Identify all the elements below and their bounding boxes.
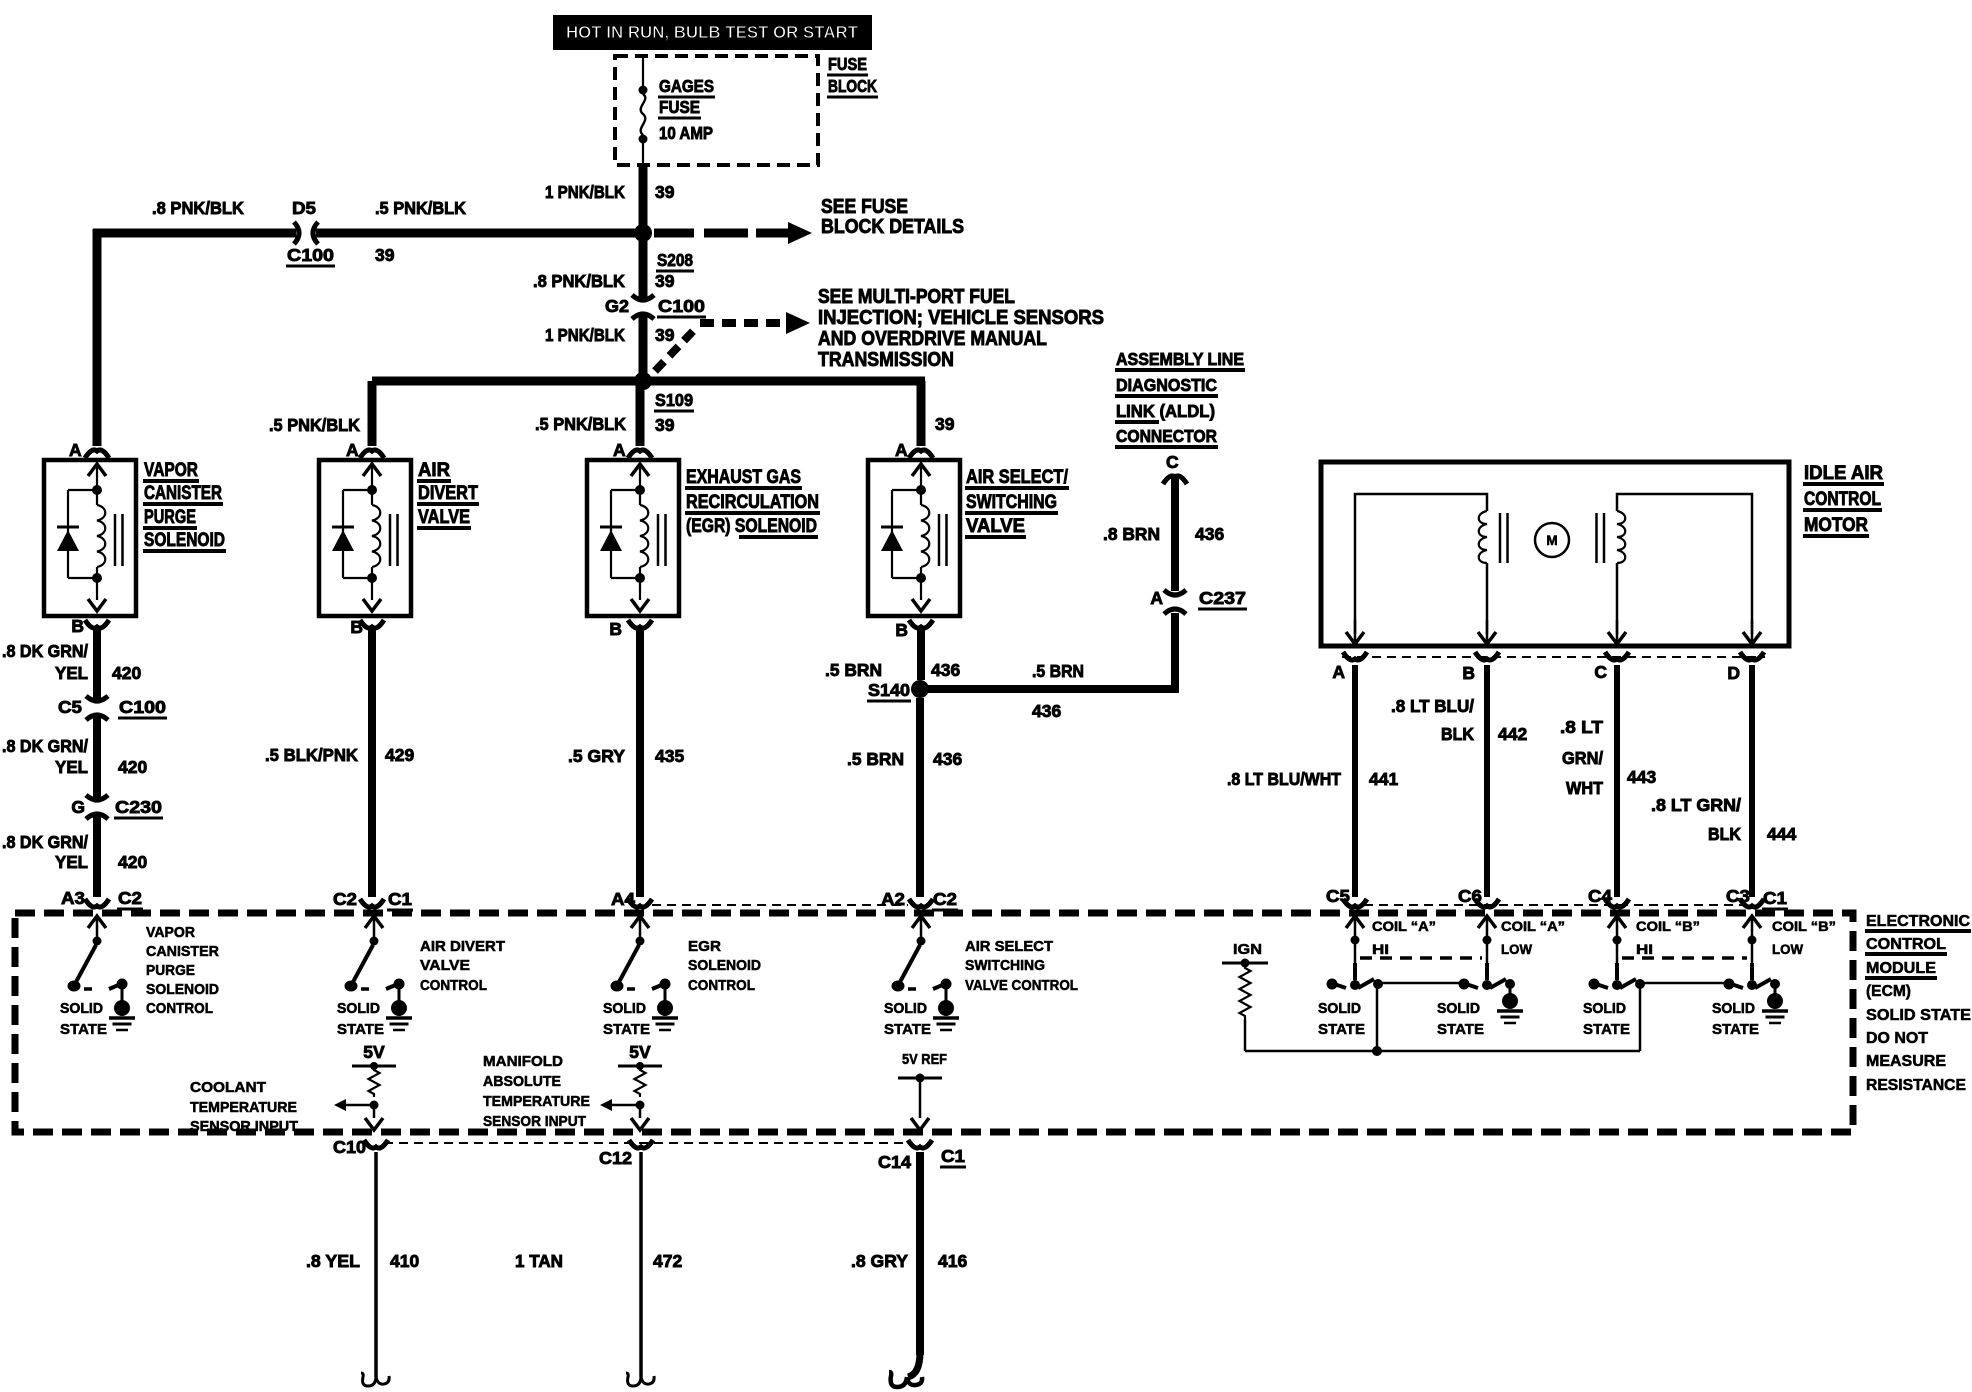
- svg-text:G2: G2: [605, 296, 629, 316]
- svg-text:BLOCK DETAILS: BLOCK DETAILS: [821, 216, 964, 238]
- svg-text:.8 PNK/BLK: .8 PNK/BLK: [533, 271, 625, 291]
- wire S109 horizontal rail: [372, 377, 925, 386]
- svg-text:B: B: [609, 619, 622, 639]
- svg-text:C100: C100: [119, 697, 166, 717]
- connector female at air divert pin A: [360, 450, 384, 458]
- svg-text:WHT: WHT: [1566, 778, 1603, 798]
- svg-text:AND OVERDRIVE MANUAL: AND OVERDRIVE MANUAL: [818, 328, 1047, 350]
- svg-text:DO NOT: DO NOT: [1866, 1030, 1929, 1047]
- svg-text:410: 410: [390, 1251, 419, 1271]
- svg-text:LINK (ALDL): LINK (ALDL): [1116, 401, 1215, 421]
- svg-text:YEL: YEL: [55, 757, 88, 777]
- solenoid air divert valve: [319, 460, 411, 616]
- connector female air select at ECM: [909, 899, 933, 907]
- junction IGN rail to coil A HI: [1372, 1046, 1382, 1056]
- svg-text:GAGES: GAGES: [659, 76, 714, 96]
- svg-text:39: 39: [655, 271, 675, 291]
- svg-text:CONTROL: CONTROL: [688, 977, 755, 994]
- svg-text:M: M: [1546, 533, 1557, 548]
- svg-text:STATE: STATE: [60, 1021, 107, 1038]
- svg-text:1 PNK/BLK: 1 PNK/BLK: [545, 182, 625, 202]
- svg-text:RESISTANCE: RESISTANCE: [1866, 1077, 1966, 1094]
- IAC terminal pins A B C D: [1354, 620, 1357, 641]
- connector female at ALDL pin C: [1163, 476, 1187, 484]
- svg-text:1 PNK/BLK: 1 PNK/BLK: [545, 325, 625, 345]
- dashed link coil A HI to LOW: [1360, 956, 1482, 960]
- wire IAC C to ECM C4 circuit 443: [1614, 665, 1620, 897]
- connector female at EGR pin A: [628, 450, 652, 458]
- wire vapor B to C100 circuit 420: [93, 629, 101, 699]
- svg-text:EXHAUST GAS: EXHAUST GAS: [686, 466, 801, 488]
- svg-text:DIVERT: DIVERT: [418, 482, 478, 504]
- svg-text:CONNECTOR: CONNECTOR: [1116, 426, 1217, 446]
- wire C230 to ECM A3 circuit 420: [93, 816, 101, 897]
- wire coil B HI contact to coil B LOW contact: [1640, 982, 1729, 985]
- svg-text:SOLENOID: SOLENOID: [146, 981, 219, 998]
- svg-text:BLOCK: BLOCK: [828, 76, 877, 96]
- IAC motor M: [1535, 523, 1569, 557]
- svg-text:SOLID STATE: SOLID STATE: [1866, 1007, 1971, 1024]
- svg-text:A: A: [895, 440, 908, 460]
- connector female at vapor canister pin A: [85, 450, 109, 458]
- svg-text:C1: C1: [1763, 888, 1787, 908]
- wire IAC A to ECM C5 circuit 441: [1352, 665, 1358, 897]
- svg-text:FUSE: FUSE: [659, 97, 700, 117]
- wire C100 to C230 circuit 420: [93, 717, 101, 798]
- svg-text:G: G: [71, 797, 85, 817]
- svg-text:.8 BRN: .8 BRN: [1103, 524, 1160, 544]
- wire C12 MAT sensor circuit 472: [639, 1152, 643, 1377]
- electronic control module ECM dashed boundary: [15, 913, 1853, 1132]
- svg-text:C2: C2: [333, 889, 357, 909]
- svg-text:C100: C100: [658, 296, 705, 316]
- svg-text:LOW: LOW: [1772, 942, 1803, 957]
- svg-text:5V REF: 5V REF: [902, 1051, 947, 1068]
- svg-text:VALVE: VALVE: [420, 957, 470, 974]
- svg-text:SENSOR INPUT: SENSOR INPUT: [483, 1113, 586, 1130]
- dashed link coil B HI to LOW: [1622, 956, 1747, 960]
- wire S208 horizontal branch left: [93, 229, 296, 238]
- svg-text:ABSOLUTE: ABSOLUTE: [483, 1073, 561, 1090]
- svg-text:CONTROL: CONTROL: [146, 1000, 213, 1017]
- svg-text:.5 BRN: .5 BRN: [847, 749, 904, 769]
- svg-text:TEMPERATURE: TEMPERATURE: [483, 1093, 590, 1110]
- svg-text:SEE FUSE: SEE FUSE: [821, 196, 908, 218]
- dashed connector interface A4 to A2: [652, 904, 908, 906]
- svg-text:SWITCHING: SWITCHING: [965, 957, 1045, 974]
- svg-text:B: B: [895, 620, 908, 640]
- svg-text:PURGE: PURGE: [146, 962, 195, 979]
- svg-text:CONTROL: CONTROL: [1804, 488, 1881, 510]
- svg-text:VAPOR: VAPOR: [144, 459, 198, 481]
- svg-text:COIL “B”: COIL “B”: [1772, 919, 1836, 934]
- svg-text:STATE: STATE: [1318, 1021, 1365, 1038]
- svg-text:BLK: BLK: [1441, 724, 1474, 744]
- dashed connector interface line IAC: [1342, 656, 1765, 658]
- connector females IAC wires at ECM: [1343, 899, 1367, 907]
- svg-text:B: B: [71, 616, 84, 636]
- wire S208 to C100 circuit 39: [639, 233, 648, 299]
- dashed connector interface line C10 to C14: [384, 1142, 910, 1144]
- svg-text:SOLID: SOLID: [1318, 1000, 1361, 1017]
- svg-text:BLK: BLK: [1708, 824, 1741, 844]
- wire ALDL to C237 circuit 436: [1171, 477, 1179, 591]
- svg-text:D5: D5: [292, 198, 316, 218]
- IAC coil B wiring loop terminal D: [1617, 494, 1752, 634]
- svg-text:436: 436: [931, 660, 960, 680]
- fuse GAGES FUSE 10 AMP: [642, 58, 644, 86]
- wire IGN to coil driver commons: [1245, 1050, 1640, 1053]
- solenoid vapor canister purge solenoid: [44, 460, 136, 616]
- svg-text:.8 LT GRN/: .8 LT GRN/: [1651, 795, 1741, 815]
- svg-text:AIR SELECT: AIR SELECT: [965, 938, 1053, 955]
- ECM driver air divert valve control: [365, 916, 383, 928]
- svg-text:.8 DK GRN/: .8 DK GRN/: [2, 736, 88, 756]
- svg-text:LOW: LOW: [1501, 942, 1532, 957]
- wire air divert B to ECM circuit 429: [368, 629, 376, 897]
- svg-text:PURGE: PURGE: [144, 506, 196, 528]
- svg-text:B: B: [1462, 663, 1475, 683]
- wire C10 coolant temp sensor circuit 410: [374, 1152, 378, 1377]
- svg-text:.5 PNK/BLK: .5 PNK/BLK: [269, 415, 360, 435]
- svg-text:EGR: EGR: [688, 938, 721, 955]
- svg-text:472: 472: [653, 1251, 682, 1271]
- svg-text:.5 PNK/BLK: .5 PNK/BLK: [375, 198, 466, 218]
- svg-text:39: 39: [375, 245, 395, 265]
- svg-text:SOLENOID: SOLENOID: [688, 957, 761, 974]
- svg-text:.5 PNK/BLK: .5 PNK/BLK: [535, 414, 626, 434]
- wire C100 to S109 circuit 39: [639, 315, 648, 381]
- svg-text:VALVE: VALVE: [966, 515, 1025, 537]
- wire C14 5V reference circuit 416: [916, 1152, 924, 1355]
- svg-text:429: 429: [385, 745, 414, 765]
- wire coil A HI contact to coil A LOW contact: [1378, 982, 1464, 985]
- svg-text:C: C: [1166, 452, 1179, 472]
- svg-text:.5 BRN: .5 BRN: [1032, 661, 1084, 681]
- svg-text:SWITCHING: SWITCHING: [966, 491, 1057, 513]
- svg-text:.8 PNK/BLK: .8 PNK/BLK: [152, 198, 244, 218]
- IAC coil A core: [1499, 513, 1502, 563]
- arrow to SEE FUSE BLOCK DETAILS: [654, 229, 694, 238]
- svg-text:STATE: STATE: [337, 1021, 384, 1038]
- svg-text:SOLID: SOLID: [60, 1000, 103, 1017]
- svg-text:.5 BRN: .5 BRN: [825, 660, 882, 680]
- svg-text:RECIRCULATION: RECIRCULATION: [686, 491, 819, 513]
- svg-text:STATE: STATE: [884, 1021, 931, 1038]
- wire fuse block to S208 circuit 39: [639, 165, 648, 233]
- IAC coil B core: [1595, 513, 1598, 563]
- svg-text:COIL “A”: COIL “A”: [1501, 919, 1565, 934]
- svg-text:SENSOR INPUT: SENSOR INPUT: [190, 1118, 298, 1135]
- connector C237 pin A inline: [1164, 590, 1186, 595]
- svg-text:STATE: STATE: [1712, 1021, 1759, 1038]
- svg-text:VAPOR: VAPOR: [146, 924, 195, 941]
- svg-text:10 AMP: 10 AMP: [659, 123, 713, 143]
- svg-text:TEMPERATURE: TEMPERATURE: [190, 1099, 297, 1116]
- svg-text:FUSE: FUSE: [828, 54, 867, 74]
- svg-text:D: D: [1727, 663, 1740, 683]
- svg-text:444: 444: [1767, 824, 1796, 844]
- connector C230 pin G inline: [86, 795, 108, 800]
- wire S208 branch down to vapor canister solenoid: [93, 229, 102, 446]
- svg-text:39: 39: [655, 182, 675, 202]
- svg-text:MEASURE: MEASURE: [1866, 1053, 1946, 1070]
- splice S109: [634, 372, 652, 390]
- svg-text:C14: C14: [878, 1152, 911, 1172]
- svg-text:C2: C2: [933, 889, 957, 909]
- wire S140 to ECM circuit 436: [916, 698, 924, 897]
- svg-text:SOLENOID: SOLENOID: [144, 529, 225, 551]
- svg-text:INJECTION; VEHICLE SENSORS: INJECTION; VEHICLE SENSORS: [818, 307, 1104, 329]
- ground at coil B LOW contact: [1774, 988, 1777, 998]
- svg-text:A3: A3: [61, 888, 85, 908]
- svg-text:420: 420: [112, 663, 141, 683]
- ECM coil B LOW driver: [1743, 916, 1761, 928]
- svg-text:C1: C1: [388, 889, 412, 909]
- svg-text:GRN/: GRN/: [1562, 748, 1603, 768]
- svg-text:VALVE CONTROL: VALVE CONTROL: [965, 977, 1078, 994]
- connector C100 pin C5 inline: [86, 696, 108, 701]
- svg-text:COIL “A”: COIL “A”: [1372, 919, 1436, 934]
- wire air select B to S140 circuit 436: [917, 629, 925, 680]
- svg-text:CONTROL: CONTROL: [1866, 936, 1946, 953]
- svg-text:436: 436: [1032, 701, 1061, 721]
- svg-text:AIR SELECT/: AIR SELECT/: [966, 466, 1068, 488]
- IAC coil B winding: [1617, 511, 1625, 563]
- idle air control motor box: [1321, 462, 1789, 646]
- svg-text:S140: S140: [868, 680, 910, 700]
- svg-text:443: 443: [1627, 767, 1656, 787]
- svg-text:STATE: STATE: [1583, 1021, 1630, 1038]
- svg-text:IDLE AIR: IDLE AIR: [1804, 462, 1883, 484]
- svg-text:39: 39: [655, 415, 675, 435]
- svg-text:416: 416: [938, 1251, 967, 1271]
- svg-text:.8 YEL: .8 YEL: [306, 1251, 360, 1271]
- svg-text:DIAGNOSTIC: DIAGNOSTIC: [1116, 375, 1217, 395]
- svg-text:.8 LT: .8 LT: [1560, 717, 1603, 737]
- svg-text:.8 GRY: .8 GRY: [851, 1251, 908, 1271]
- svg-text:SOLID: SOLID: [1437, 1000, 1480, 1017]
- svg-text:SOLID: SOLID: [603, 1000, 646, 1017]
- svg-text:436: 436: [1195, 524, 1224, 544]
- svg-text:.8 LT BLU/: .8 LT BLU/: [1391, 696, 1474, 716]
- svg-text:C12: C12: [599, 1148, 632, 1168]
- svg-text:435: 435: [655, 746, 684, 766]
- svg-text:(EGR) SOLENOID: (EGR) SOLENOID: [686, 515, 817, 537]
- svg-text:.5 BLK/PNK: .5 BLK/PNK: [265, 745, 358, 765]
- svg-text:SOLID: SOLID: [337, 1000, 380, 1017]
- ECM coil A HI driver: [1346, 916, 1364, 928]
- wire IAC B to ECM C6 circuit 442: [1484, 665, 1490, 897]
- svg-text:A: A: [1150, 588, 1163, 608]
- svg-text:IGN: IGN: [1233, 941, 1262, 958]
- svg-text:YEL: YEL: [55, 663, 88, 683]
- svg-text:HOT IN RUN, BULB TEST OR START: HOT IN RUN, BULB TEST OR START: [566, 22, 858, 42]
- svg-text:39: 39: [935, 414, 955, 434]
- svg-text:STATE: STATE: [603, 1021, 650, 1038]
- ECM driver air select switching valve control: [912, 916, 930, 928]
- svg-text:1 TAN: 1 TAN: [515, 1251, 563, 1271]
- svg-text:S109: S109: [655, 390, 693, 410]
- svg-text:A: A: [346, 440, 359, 460]
- IAC coil A winding: [1479, 511, 1487, 563]
- svg-text:S208: S208: [657, 250, 693, 270]
- svg-text:SOLID: SOLID: [1583, 1000, 1626, 1017]
- svg-text:(ECM): (ECM): [1866, 983, 1911, 1000]
- svg-text:MOTOR: MOTOR: [1804, 514, 1868, 536]
- svg-text:C2: C2: [118, 888, 142, 908]
- svg-text:ASSEMBLY LINE: ASSEMBLY LINE: [1116, 349, 1244, 369]
- svg-text:COOLANT: COOLANT: [190, 1079, 266, 1096]
- svg-text:C10: C10: [333, 1137, 366, 1157]
- svg-text:.5 GRY: .5 GRY: [568, 746, 625, 766]
- svg-text:C3: C3: [1726, 886, 1750, 906]
- svg-text:TRANSMISSION: TRANSMISSION: [818, 349, 954, 371]
- solenoid air select switching valve: [868, 460, 960, 616]
- connector C100 pin G2 inline: [632, 295, 654, 300]
- solenoid exhaust gas recirculation EGR solenoid: [587, 460, 679, 616]
- svg-text:C230: C230: [115, 797, 162, 817]
- svg-text:C237: C237: [1199, 588, 1246, 608]
- dashed connector interface C5 to C3: [1364, 904, 1744, 906]
- svg-text:CANISTER: CANISTER: [144, 482, 222, 504]
- svg-text:A: A: [613, 440, 626, 460]
- wire EGR B to ECM circuit 435: [636, 629, 644, 897]
- svg-text:SOLID: SOLID: [884, 1000, 927, 1017]
- wire S109 branch down to air select valve: [917, 381, 926, 446]
- connector female EGR at ECM: [628, 899, 652, 907]
- header banner HOT IN RUN, BULB TEST OR START: [553, 15, 872, 50]
- svg-text:.8 DK GRN/: .8 DK GRN/: [2, 832, 88, 852]
- svg-text:.8 DK GRN/: .8 DK GRN/: [2, 641, 88, 661]
- svg-text:420: 420: [118, 852, 147, 872]
- svg-text:COIL “B”: COIL “B”: [1636, 919, 1700, 934]
- svg-text:HI: HI: [1636, 942, 1653, 957]
- svg-text:A: A: [69, 440, 82, 460]
- ECM coil B HI driver: [1608, 916, 1626, 928]
- svg-text:5V: 5V: [629, 1042, 651, 1062]
- svg-text:VALVE: VALVE: [418, 506, 470, 528]
- wire S109 branch down to air divert valve: [368, 381, 377, 446]
- svg-text:436: 436: [933, 749, 962, 769]
- svg-text:SOLID: SOLID: [1712, 1000, 1755, 1017]
- svg-text:HI: HI: [1372, 942, 1389, 957]
- svg-text:AIR: AIR: [418, 459, 450, 481]
- connector female air divert at ECM: [360, 899, 384, 907]
- svg-text:442: 442: [1498, 724, 1527, 744]
- IAC coil A wiring loop terminal A: [1355, 494, 1487, 634]
- svg-text:SEE MULTI-PORT FUEL: SEE MULTI-PORT FUEL: [818, 286, 1015, 308]
- wire C237 down and left to S140 circuit 436: [1171, 613, 1179, 689]
- svg-text:5V: 5V: [363, 1042, 385, 1062]
- wire IAC D to ECM C3 circuit 444: [1749, 665, 1755, 897]
- ground at coil A LOW contact: [1509, 988, 1512, 998]
- svg-text:39: 39: [655, 325, 675, 345]
- svg-text:441: 441: [1369, 769, 1398, 789]
- svg-text:STATE: STATE: [1437, 1021, 1484, 1038]
- splice S208: [634, 224, 652, 242]
- fuse block dashed box: [615, 56, 818, 165]
- connector female at air select pin A: [909, 450, 933, 458]
- connector C100 pin D5 inline: [294, 222, 299, 244]
- svg-text:MANIFOLD: MANIFOLD: [483, 1053, 563, 1070]
- ECM driver vapor canister purge solenoid control: [88, 916, 106, 928]
- splice S140: [911, 680, 929, 698]
- svg-text:C1: C1: [941, 1146, 965, 1166]
- connector female vapor at ECM: [85, 899, 109, 907]
- connector females below IAC terminals: [1343, 652, 1367, 660]
- ECM driver EGR solenoid control: [631, 916, 649, 928]
- svg-text:.8 LT BLU/WHT: .8 LT BLU/WHT: [1227, 769, 1341, 789]
- svg-text:ELECTRONIC: ELECTRONIC: [1866, 913, 1970, 930]
- svg-text:C: C: [1594, 662, 1607, 682]
- svg-text:YEL: YEL: [55, 852, 88, 872]
- svg-text:C5: C5: [58, 697, 82, 717]
- svg-text:CONTROL: CONTROL: [420, 977, 487, 994]
- svg-text:MODULE: MODULE: [1866, 960, 1936, 977]
- svg-text:C100: C100: [287, 245, 334, 265]
- ECM coil A LOW driver: [1478, 916, 1496, 928]
- svg-text:CANISTER: CANISTER: [146, 943, 219, 960]
- svg-text:420: 420: [118, 757, 147, 777]
- svg-text:AIR DIVERT: AIR DIVERT: [420, 938, 505, 955]
- dashed arrow to SEE MULTI-PORT note: [655, 327, 697, 371]
- svg-text:A: A: [1332, 662, 1345, 682]
- wire S109 branch down to EGR solenoid: [636, 381, 645, 446]
